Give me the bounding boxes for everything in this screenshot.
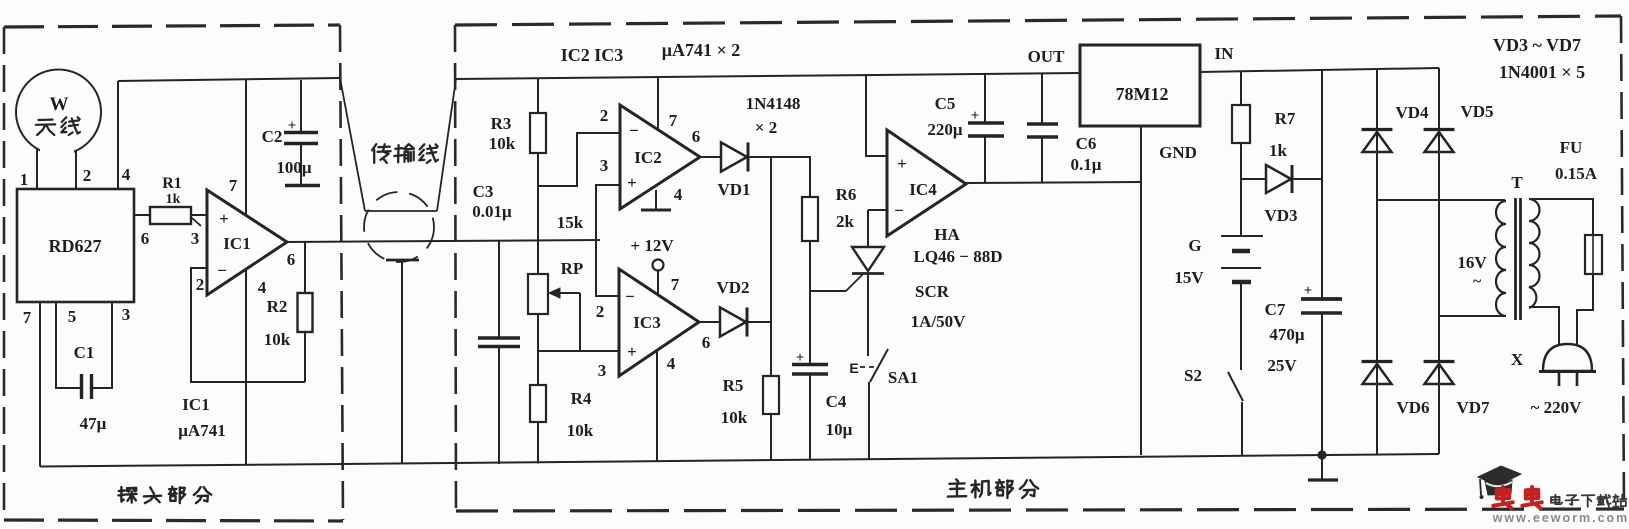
svg-text:5: 5 <box>68 307 77 326</box>
resistor R1 <box>150 207 201 226</box>
svg-text:+: + <box>971 108 980 124</box>
svg-text:16V: 16V <box>1457 253 1487 272</box>
diode VD2 <box>720 307 747 336</box>
label VD5 <box>1460 102 1493 121</box>
transmission line left slant wire <box>340 78 365 211</box>
antenna W circle symbol <box>16 70 101 159</box>
wire IC1 output <box>287 240 600 242</box>
svg-text:R7: R7 <box>1275 109 1296 128</box>
IC2 name <box>634 148 661 167</box>
svg-text:3: 3 <box>122 305 131 324</box>
wire R1 to IC1 pin3 <box>191 214 207 216</box>
label X <box>1511 350 1524 369</box>
pin label 3 (IC1 +) <box>191 229 200 248</box>
RD627 module U1 <box>17 189 134 302</box>
antenna lead pin 2 wire <box>75 150 77 189</box>
svg-text:4: 4 <box>674 185 683 204</box>
label 1A/50V <box>911 312 967 331</box>
pin label 6 <box>141 229 150 248</box>
svg-text:IC2: IC2 <box>634 148 661 167</box>
IC2 pin4 ground stub <box>655 190 657 209</box>
op-amp IC3 <box>619 269 699 376</box>
svg-text:GND: GND <box>1159 143 1197 162</box>
transmission line right slant wire <box>437 79 456 211</box>
svg-text:+: + <box>627 173 637 192</box>
svg-text:2: 2 <box>83 166 92 185</box>
wire IN to C7 vertical <box>1321 70 1323 299</box>
label 10k R5 <box>721 408 748 427</box>
wire C3 bottom <box>498 347 500 464</box>
svg-text:C2: C2 <box>262 127 283 146</box>
capacitor C5 <box>968 123 1004 136</box>
svg-text:7: 7 <box>671 275 680 294</box>
IC3 pin label 4 <box>667 354 676 373</box>
wire RD627 pin4 to top rail <box>117 81 119 189</box>
svg-text:78M12: 78M12 <box>1116 84 1169 104</box>
label tilde 16V <box>1473 273 1482 290</box>
svg-text:4: 4 <box>258 278 267 297</box>
wire IC3 out to VD2 <box>699 321 720 323</box>
label GND <box>1159 143 1197 162</box>
label + C2 <box>288 118 297 134</box>
svg-text:IN: IN <box>1215 44 1235 63</box>
IC3 pin label 3 <box>598 361 607 380</box>
wire C5 top <box>984 74 986 123</box>
label VD1 <box>717 180 750 199</box>
svg-text:VD3: VD3 <box>1264 206 1297 225</box>
wire C2 bottom stub <box>300 143 302 185</box>
svg-text:−: − <box>894 201 904 220</box>
label FU <box>1560 138 1583 157</box>
shield wire to bottom rail <box>401 261 403 464</box>
SCR gate wire <box>810 274 863 291</box>
label + C7 <box>1304 283 1313 299</box>
wire R5 bottom <box>770 414 772 460</box>
label OUT <box>1028 47 1066 66</box>
svg-text:IC1: IC1 <box>223 234 250 253</box>
svg-text:1k: 1k <box>166 192 181 207</box>
wire IC4 plus input from rail <box>866 74 887 156</box>
caption uA741 x2 <box>662 40 740 60</box>
svg-text:VD4: VD4 <box>1395 103 1429 122</box>
label 0.1u <box>1071 155 1102 174</box>
transmission line dashed circle <box>364 192 434 262</box>
wire R3 line down to signal <box>537 186 539 240</box>
wire SCR cathode to SA1 <box>867 273 869 356</box>
svg-text:−: − <box>629 121 639 140</box>
dashed border of main section box <box>455 16 1624 511</box>
wire GND down <box>1140 126 1142 455</box>
IC3 name <box>633 313 660 332</box>
svg-text:VD3 ~ VD7: VD3 ~ VD7 <box>1493 35 1581 55</box>
label SCR <box>915 282 950 301</box>
svg-text:FU: FU <box>1560 138 1583 157</box>
label VD3 <box>1264 206 1297 225</box>
label 16V <box>1457 253 1487 272</box>
bottom rail probe section <box>40 464 343 467</box>
label + C4 <box>796 350 805 366</box>
transformer T secondary winding <box>1529 199 1540 308</box>
svg-text:C4: C4 <box>826 392 847 411</box>
svg-text:C6: C6 <box>1076 134 1097 153</box>
IC3 pin label 6 <box>702 333 711 352</box>
top rail of probe section <box>118 78 340 81</box>
label 1N4148 <box>746 94 801 113</box>
diode VD4 <box>1362 130 1393 153</box>
svg-text:2: 2 <box>600 106 609 125</box>
wire R7 bottom to battery <box>1240 143 1242 236</box>
svg-text:C7: C7 <box>1265 300 1286 319</box>
svg-text:1N4001 × 5: 1N4001 × 5 <box>1499 62 1585 82</box>
switch SA1 blade <box>870 349 888 382</box>
svg-text:2: 2 <box>196 275 205 294</box>
svg-text:VD2: VD2 <box>716 278 749 297</box>
wire RD627 pin3 down to C1 <box>93 302 112 388</box>
label VD6 <box>1396 398 1429 417</box>
IC2 ground bar <box>641 209 671 212</box>
label 1N4001 x5 <box>1499 62 1585 82</box>
resistor R3 <box>530 113 546 153</box>
svg-text:+: + <box>288 118 297 134</box>
wire VD1 to R6 corner <box>748 157 810 197</box>
svg-text:S2: S2 <box>1184 366 1202 385</box>
IC3 - sign <box>625 287 635 306</box>
svg-text:IC3: IC3 <box>633 313 660 332</box>
pin label 4 <box>122 165 131 184</box>
svg-text:VD5: VD5 <box>1460 102 1493 121</box>
wire VD5 leg vertical <box>1438 68 1440 454</box>
IC1 pin label 6 <box>287 250 296 269</box>
label 0.01u <box>472 202 512 221</box>
wire C7 bottom to junction <box>1321 313 1323 455</box>
label C5 <box>935 94 956 113</box>
label VD4 <box>1395 103 1429 122</box>
svg-text:G: G <box>1188 236 1201 255</box>
svg-text:SCR: SCR <box>915 282 950 301</box>
svg-text:C1: C1 <box>74 343 95 362</box>
svg-text:2k: 2k <box>836 212 855 231</box>
capacitor C7 <box>1301 299 1342 313</box>
label 470u <box>1269 325 1305 344</box>
label 220u <box>927 120 963 139</box>
diode VD1 <box>721 142 748 171</box>
capacitor C2 <box>284 133 318 144</box>
svg-text:0.1μ: 0.1μ <box>1071 155 1102 174</box>
pin label 1 <box>20 170 29 189</box>
wire IC4 minus input <box>868 209 887 211</box>
svg-text:470μ: 470μ <box>1269 325 1305 344</box>
wire IN rail <box>1200 68 1439 72</box>
capacitor C3 <box>478 338 520 347</box>
label x2 <box>755 118 777 137</box>
label RP <box>561 259 584 278</box>
svg-text:15k: 15k <box>557 213 584 232</box>
label 10u C4 <box>826 420 853 439</box>
svg-text:× 2: × 2 <box>755 118 777 137</box>
label +12V <box>630 236 674 255</box>
svg-text:OUT: OUT <box>1028 47 1066 66</box>
svg-text:LQ46 − 88D: LQ46 − 88D <box>913 247 1002 266</box>
wire VD2 to junction <box>747 321 771 323</box>
svg-text:IC4: IC4 <box>909 180 937 199</box>
wire RD627 pin6 to R1 <box>134 214 150 216</box>
svg-text:3: 3 <box>598 361 607 380</box>
svg-text:HA: HA <box>934 225 960 244</box>
svg-text:+: + <box>219 209 229 228</box>
svg-text:R3: R3 <box>491 114 512 133</box>
diode VD6 <box>1362 362 1393 385</box>
svg-text:2: 2 <box>596 302 605 321</box>
wire IC1 pin4 to bottom rail <box>245 268 247 465</box>
wire secondary bottom to plug <box>1529 307 1559 352</box>
resistor R4 <box>530 385 546 422</box>
IC2 pin label 6 <box>692 127 701 146</box>
IC1 name <box>223 234 250 253</box>
IC3 pin7 supply circle terminal <box>653 260 664 296</box>
IC3 pin4 wire down <box>656 350 658 461</box>
RP wiper arrow <box>549 288 580 298</box>
svg-text:3: 3 <box>191 229 200 248</box>
wire C2 top <box>300 80 302 132</box>
resistor R6 <box>802 197 818 241</box>
wire IC4 output line <box>966 182 1141 183</box>
wire IC2 pin7 to rail <box>657 76 659 130</box>
logo 虫虫 red text <box>1493 487 1541 508</box>
ground bar symbol <box>1308 478 1338 481</box>
wire SA1 bottom <box>868 382 870 459</box>
wire junction down to R5 <box>770 322 772 376</box>
diode VD5 <box>1424 130 1455 153</box>
label C3 <box>473 182 494 201</box>
svg-text:10k: 10k <box>721 408 748 427</box>
logo 电子下载站 text <box>1551 495 1626 507</box>
antenna label 天线 <box>36 117 80 135</box>
wire RD627 pin7 down <box>39 302 41 467</box>
pin label 7 bottom <box>23 308 32 327</box>
svg-text:W: W <box>50 94 69 115</box>
wire IC1 pin2 feedback loop <box>191 268 305 382</box>
logo graduation cap <box>1478 466 1521 499</box>
svg-text:15V: 15V <box>1174 268 1204 287</box>
wire R3 bottom to IC2 pin2 <box>538 133 620 186</box>
label 10k R2 <box>264 330 291 349</box>
label IN <box>1215 44 1235 63</box>
label 15V <box>1174 268 1204 287</box>
label R6 <box>836 185 857 204</box>
svg-text:IC2 IC3: IC2 IC3 <box>561 45 624 65</box>
wire IC1 pin7 to top rail <box>245 80 247 216</box>
IC4 - sign <box>894 201 904 220</box>
svg-text:220μ: 220μ <box>927 120 963 139</box>
wire R4 bottom <box>537 422 539 464</box>
label C2 <box>262 127 283 146</box>
ground stub below junction <box>1321 455 1323 479</box>
label VD7 <box>1456 398 1490 417</box>
svg-text:4: 4 <box>667 354 676 373</box>
diode VD3 <box>1266 165 1292 193</box>
wire signal to IC3 pin2 <box>596 240 619 296</box>
logo www.eeworm.com <box>1492 511 1629 525</box>
svg-text:6: 6 <box>692 127 701 146</box>
svg-text:7: 7 <box>23 308 32 327</box>
junction dot node <box>1317 450 1326 459</box>
wire IC2 out to VD1 <box>700 156 721 158</box>
op-amp IC2 <box>620 105 700 209</box>
probe section caption 探头部分 <box>118 487 211 503</box>
svg-text:1N4148: 1N4148 <box>746 94 801 113</box>
svg-text:1A/50V: 1A/50V <box>911 312 967 331</box>
wire C3 top <box>498 240 500 338</box>
wire RP wiper down to pin3 line <box>579 293 581 351</box>
plug X symbol <box>1539 344 1596 386</box>
label R5 <box>723 376 744 395</box>
battery G <box>1221 236 1263 282</box>
svg-text:IC1: IC1 <box>182 395 209 414</box>
svg-text:6: 6 <box>702 333 711 352</box>
C2 bottom bar terminal <box>285 184 320 187</box>
label E <box>849 360 858 376</box>
fuse FU <box>1585 235 1602 274</box>
svg-text:RD627: RD627 <box>49 236 102 256</box>
svg-text:100μ: 100μ <box>276 158 312 177</box>
label R4 <box>571 389 592 408</box>
label 0.15A <box>1555 164 1598 183</box>
wire bridge left to primary top <box>1377 199 1505 201</box>
IC3 pin label 7 <box>671 275 680 294</box>
label 10k R3 <box>489 134 516 153</box>
svg-text:6: 6 <box>287 250 296 269</box>
IC1 pin label 2 <box>196 275 205 294</box>
label uA741 below <box>178 421 225 440</box>
IC3 pin label 2 <box>596 302 605 321</box>
pin label 3 bottom <box>122 305 131 324</box>
svg-text:10k: 10k <box>567 421 594 440</box>
thyristor SCR <box>852 247 884 274</box>
svg-text:4: 4 <box>122 165 131 184</box>
svg-text:3: 3 <box>600 156 609 175</box>
transformer core <box>1516 198 1521 320</box>
wire R2 top <box>304 242 306 293</box>
wire VD1-VD2 junction vertical <box>770 157 772 322</box>
transmission line bottom span wire <box>365 210 437 212</box>
label C4 <box>826 392 847 411</box>
switch S2 blade <box>1228 372 1243 401</box>
diode VD7 <box>1424 362 1455 385</box>
wire IC4 minus to SCR anode <box>867 210 869 247</box>
svg-text:7: 7 <box>229 176 238 195</box>
IC2 - sign <box>629 121 639 140</box>
svg-text:0.01μ: 0.01μ <box>472 202 512 221</box>
svg-text:R2: R2 <box>267 297 288 316</box>
wire bridge right to primary bottom <box>1439 315 1505 317</box>
wire secondary top to fuse <box>1530 199 1593 235</box>
svg-text:VD7: VD7 <box>1456 398 1490 417</box>
wire C4 bottom <box>809 374 811 460</box>
IC4 + sign <box>897 154 907 173</box>
svg-text:R6: R6 <box>836 185 857 204</box>
svg-text:7: 7 <box>669 111 678 130</box>
label VD2 <box>716 278 749 297</box>
IC1 - sign <box>217 261 227 280</box>
svg-text:R4: R4 <box>571 389 592 408</box>
wire VD4 leg vertical <box>1376 69 1378 455</box>
label IC1 below <box>182 395 209 414</box>
svg-text:VD1: VD1 <box>717 180 750 199</box>
label G <box>1188 236 1201 255</box>
svg-text:R1: R1 <box>162 175 182 192</box>
IC2 pin label 7 <box>669 111 678 130</box>
svg-text:47μ: 47μ <box>80 414 107 433</box>
main +12V top rail <box>456 73 1080 79</box>
label C1 <box>74 343 95 362</box>
svg-text:10μ: 10μ <box>826 420 853 439</box>
label 100u C2 <box>276 158 312 177</box>
IC2 + sign <box>627 173 637 192</box>
wire IC3 pin3 line <box>538 350 619 352</box>
svg-text:10k: 10k <box>264 330 291 349</box>
wire VD3 cathode to IN line <box>1292 178 1322 180</box>
wire junction to C4 <box>809 291 811 364</box>
shield bar terminal <box>386 259 419 262</box>
label SA1 <box>888 368 918 387</box>
caption IC2 IC3 <box>561 45 624 65</box>
wire signal to IC2 pin3 <box>596 185 620 239</box>
svg-text:μA741 × 2: μA741 × 2 <box>662 40 740 60</box>
svg-text:−: − <box>217 261 227 280</box>
IC2 pin label 2 <box>600 106 609 125</box>
pin label 5 bottom <box>68 307 77 326</box>
svg-text:0.15A: 0.15A <box>1555 164 1598 183</box>
label 10k R4 <box>567 421 594 440</box>
svg-text:RP: RP <box>561 259 584 278</box>
svg-text:X: X <box>1511 350 1524 369</box>
svg-text:SA1: SA1 <box>888 368 918 387</box>
svg-text:1k: 1k <box>1269 141 1288 160</box>
wire R7 top <box>1240 71 1242 105</box>
svg-text:C3: C3 <box>473 182 494 201</box>
label R1 <box>162 175 182 192</box>
svg-text:E: E <box>849 360 858 376</box>
antenna lead pin 1 wire <box>36 149 38 189</box>
label 2k R6 <box>836 212 855 231</box>
svg-text:μA741: μA741 <box>178 421 225 440</box>
label R3 <box>491 114 512 133</box>
svg-text:10k: 10k <box>489 134 516 153</box>
potentiometer RP <box>528 274 548 314</box>
op-amp IC1 <box>207 190 287 295</box>
transformer T primary winding <box>1496 201 1506 316</box>
capacitor C4 <box>792 365 828 375</box>
wire RD627 pin5 down to C1 <box>56 302 80 388</box>
resistor R7 <box>1232 105 1250 143</box>
svg-text:1: 1 <box>20 170 29 189</box>
svg-text:+: + <box>627 342 637 361</box>
label C7 <box>1265 300 1286 319</box>
svg-text:+: + <box>897 154 907 173</box>
svg-text:T: T <box>1511 173 1523 192</box>
dashed border of probe section box <box>4 25 343 521</box>
IC1 + sign <box>219 209 229 228</box>
caption 主机部分 <box>948 479 1038 498</box>
svg-text:+ 12V: + 12V <box>630 236 674 255</box>
main bottom rail <box>343 454 1439 464</box>
wire R3 top <box>537 78 539 113</box>
svg-text:~ 220V: ~ 220V <box>1531 398 1583 417</box>
label LQ46-88D <box>913 247 1002 266</box>
label T <box>1511 173 1523 192</box>
wire R6 bottom to gate junction <box>809 241 811 291</box>
wire C6 bottom <box>1041 137 1043 182</box>
